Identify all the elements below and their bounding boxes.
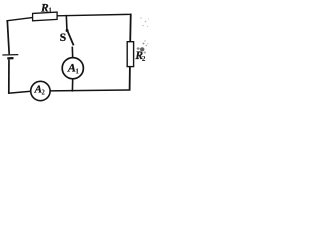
wire left side bottom <box>8 60 10 94</box>
switch S blade <box>68 31 74 45</box>
svg-text:S: S <box>60 32 66 44</box>
wire top-left to R1 <box>6 17 33 20</box>
wire right side top <box>129 14 132 43</box>
wire left side top <box>7 20 9 54</box>
resistor R2 <box>127 42 133 67</box>
resistor R1 <box>33 12 58 21</box>
switch S pivot dot <box>66 29 69 32</box>
ammeter A1 <box>62 58 83 79</box>
wire bottom right segment <box>50 89 131 92</box>
svg-text:1: 1 <box>75 67 79 76</box>
wire R1 to top-right corner <box>57 14 131 16</box>
wire switch branch from top wire <box>65 15 68 30</box>
ammeter A2 <box>31 81 50 100</box>
svg-text:2: 2 <box>41 89 45 97</box>
smudge blobs near R2 <box>140 47 144 51</box>
battery: short thick plate (negative) <box>7 57 13 59</box>
wire bottom left segment <box>8 91 31 93</box>
svg-text:2: 2 <box>142 54 146 63</box>
scan speckles above R2 <box>143 43 145 45</box>
wire A1 to bottom wire <box>71 79 73 92</box>
wire right side bottom <box>129 67 131 91</box>
svg-text:1: 1 <box>48 6 52 15</box>
battery: long thin plate (positive) <box>2 54 18 56</box>
wire switch to A1 <box>71 47 73 58</box>
scan speckles upper right <box>140 17 142 19</box>
